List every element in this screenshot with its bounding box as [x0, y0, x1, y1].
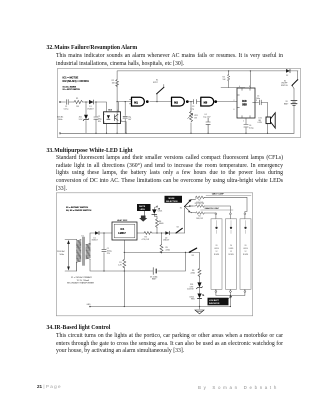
- opto-coupler IC1: [104, 112, 121, 124]
- resistor branch3: [196, 212, 205, 215]
- svg-text:6: 6: [234, 109, 235, 111]
- svg-text:56Ω, 1W: 56Ω, 1W: [196, 218, 203, 220]
- capacitor C2: [94, 117, 98, 119]
- svg-text:680Ω: 680Ω: [159, 223, 164, 225]
- paragraph 34: [56, 334, 283, 340]
- resistor R1: [74, 100, 83, 103]
- svg-text:230V AC: 230V AC: [57, 115, 64, 118]
- svg-text:X1: X1: [81, 235, 84, 237]
- NAND gate N3: [201, 97, 217, 106]
- LED panel A: [211, 219, 222, 289]
- LED1: [152, 209, 157, 214]
- svg-text:IC3: IC3: [242, 99, 247, 103]
- svg-text:1N4007: 1N4007: [163, 240, 169, 242]
- resistor R5: [160, 245, 163, 254]
- svg-text:2: 2: [234, 100, 235, 102]
- svg-text:230V AC: 230V AC: [57, 250, 65, 253]
- svg-text:16V: 16V: [98, 121, 102, 123]
- svg-text:50Hz: 50Hz: [60, 254, 65, 256]
- vdd rail: [117, 71, 298, 133]
- switch S3: [189, 248, 196, 252]
- svg-text:1N4007: 1N4007: [92, 240, 98, 242]
- svg-text:100µ: 100µ: [256, 98, 260, 100]
- svg-text:TABLE LAMP: TABLE LAMP: [212, 193, 225, 196]
- heading 33: [47, 149, 133, 155]
- svg-text:S2: S2: [177, 227, 179, 229]
- svg-text:BATT: BATT: [284, 102, 289, 105]
- diode D2 on rail: [286, 69, 290, 73]
- svg-text:1N4007: 1N4007: [87, 108, 93, 110]
- svg-text:S3: S3: [192, 255, 194, 257]
- svg-text:SEARCH LIGHT: SEARCH LIGHT: [205, 207, 221, 210]
- heading 34: [47, 326, 111, 332]
- capacitor C3: [194, 99, 197, 103]
- X1 transformer note: [67, 276, 95, 285]
- svg-text:HEAT SINK: HEAT SINK: [117, 219, 128, 222]
- svg-text:4: 4: [121, 120, 122, 122]
- IC3 pin1 ground: [245, 118, 247, 133]
- resistor R3 (vertical): [190, 112, 193, 122]
- svg-text:IC1: IC1: [109, 110, 113, 112]
- svg-text:555: 555: [242, 103, 247, 107]
- svg-text:1M: 1M: [194, 117, 197, 119]
- diode D1: [95, 231, 99, 235]
- svg-text:ROWS: ROWS: [243, 254, 249, 256]
- node C2: [95, 102, 97, 133]
- svg-text:ROWS: ROWS: [214, 254, 220, 256]
- ground symbol: [195, 310, 204, 314]
- svg-text:GND: GND: [87, 304, 92, 306]
- svg-text:12: 12: [245, 251, 247, 253]
- svg-text:TO 9V, 750mA: TO 9V, 750mA: [77, 279, 90, 282]
- svg-text:X1 = 230V AC PRIMARY: X1 = 230V AC PRIMARY: [71, 276, 93, 279]
- svg-text:1: 1: [243, 121, 244, 123]
- svg-text:4.7Ω, 1W: 4.7Ω, 1W: [142, 239, 150, 241]
- svg-text:0.1µ: 0.1µ: [191, 108, 195, 110]
- svg-text:0.01µ: 0.01µ: [249, 127, 254, 129]
- schematic 2: [56, 192, 254, 317]
- svg-text:IC2 (N1-N4) = CD4011: IC2 (N1-N4) = CD4011: [63, 79, 90, 83]
- diode D1: [89, 100, 94, 104]
- LED panel C: [240, 219, 251, 289]
- AC input arrows: [67, 240, 70, 271]
- frame border: [56, 193, 252, 316]
- zener ZD1: [197, 282, 201, 287]
- capacitor C1: [66, 100, 68, 105]
- svg-text:SECONDARY TRANSFORMER: SECONDARY TRANSFORMER: [67, 282, 95, 285]
- resistor branch2: [196, 205, 205, 208]
- svg-text:R1: R1: [76, 98, 78, 100]
- wires: [65, 197, 247, 309]
- N2 out, C3, N3: [188, 102, 200, 134]
- heading 32: [47, 46, 138, 52]
- footer page number: [37, 384, 62, 389]
- capacitor C1: [102, 249, 106, 251]
- regulator IC1: [112, 222, 137, 240]
- battery BATT 9V: [291, 101, 297, 106]
- svg-text:20: 20: [216, 245, 218, 247]
- svg-text:SELECTION: SELECTION: [166, 201, 178, 203]
- svg-text:1.2K: 1.2K: [118, 264, 122, 266]
- zener ZD1: [84, 115, 88, 120]
- svg-text:20: 20: [230, 245, 232, 247]
- svg-text:R3 12Ω, 1W: R3 12Ω, 1W: [195, 203, 205, 205]
- svg-text:ROWS: ROWS: [228, 254, 234, 256]
- opto pins: [107, 102, 127, 134]
- svg-text:LEDS: LEDS: [140, 209, 146, 211]
- resistor R2 (vertical): [116, 80, 119, 87]
- svg-text:LEDS: LEDS: [229, 248, 234, 250]
- svg-text:MODE: MODE: [169, 198, 176, 200]
- wires: AC input rails: [60, 71, 298, 133]
- svg-text:12: 12: [216, 251, 218, 253]
- svg-text:1: 1: [104, 114, 105, 116]
- svg-text:10µ: 10µ: [203, 117, 206, 119]
- IC3 top pins: [221, 71, 250, 88]
- NAND gate N2: [172, 97, 189, 106]
- transformer X1: [76, 237, 90, 271]
- svg-text:1M: 1M: [76, 106, 79, 108]
- battery 6V: [153, 268, 156, 275]
- switch S1: [157, 88, 164, 94]
- junction dots: [103, 232, 231, 307]
- paragraph 32: [56, 54, 283, 60]
- svg-text:10K: 10K: [223, 79, 227, 81]
- svg-text:220Ω: 220Ω: [191, 273, 196, 275]
- svg-text:LEDS: LEDS: [243, 248, 248, 250]
- svg-text:4: 4: [239, 86, 240, 88]
- switch S2: [292, 80, 298, 86]
- IC3 555 timer: [237, 88, 255, 118]
- diode D2: [165, 231, 169, 235]
- svg-text:LEDS: LEDS: [214, 248, 219, 250]
- capacitor C4: [206, 118, 210, 133]
- svg-text:N3: N3: [204, 100, 208, 104]
- svg-text:S2, S3 = ON/OFF SWITCH: S2, S3 = ON/OFF SWITCH: [66, 210, 92, 212]
- parts list labels: [63, 76, 90, 91]
- parts list labels: [66, 206, 92, 212]
- svg-text:5.1V: 5.1V: [79, 119, 83, 121]
- junction dots: [85, 70, 268, 134]
- LED panel terminals: [215, 213, 246, 292]
- svg-text:16V: 16V: [207, 117, 211, 119]
- svg-text:N1: N1: [134, 100, 138, 104]
- N3 out to IC3: [217, 101, 237, 103]
- svg-text:S1 = SPST SWITCH: S1 = SPST SWITCH: [63, 89, 81, 91]
- resistor R1: [123, 259, 126, 268]
- N1 out to N2: [150, 101, 171, 103]
- S1 branch: [156, 94, 158, 102]
- svg-text:25V: 25V: [107, 253, 111, 255]
- AC input terminals: [59, 101, 61, 103]
- schematic 1: [57, 68, 302, 138]
- svg-text:12: 12: [230, 251, 232, 253]
- node ZD1 top/bottom: [85, 102, 87, 133]
- svg-text:8: 8: [249, 86, 250, 88]
- low batt indicator label box: [208, 298, 229, 306]
- resistor R3: [144, 232, 152, 235]
- svg-text:LED1: LED1: [158, 211, 163, 213]
- LED panel B: [226, 219, 237, 289]
- resistor R2 branch1: [196, 196, 205, 199]
- capacitor C5: [259, 100, 261, 105]
- svg-text:400mW: 400mW: [187, 289, 193, 291]
- svg-text:5: 5: [117, 110, 118, 112]
- svg-text:10K: 10K: [112, 83, 116, 85]
- loudspeaker LS1: [266, 117, 271, 124]
- svg-text:220Ω: 220Ω: [166, 249, 171, 251]
- svg-text:2: 2: [104, 122, 105, 124]
- svg-text:S1 = ROTARY SWITCH: S1 = ROTARY SWITCH: [66, 206, 89, 209]
- svg-text:RED: RED: [191, 299, 195, 301]
- svg-text:0.47µ: 0.47µ: [64, 108, 69, 110]
- svg-text:3: 3: [256, 100, 257, 102]
- capacitor C7 at opto output: [123, 116, 127, 118]
- svg-text:LM317: LM317: [118, 232, 126, 235]
- heat sink label box: [137, 204, 151, 211]
- LED2: [197, 294, 201, 299]
- svg-text:16V: 16V: [128, 119, 132, 121]
- mode selection label box: [165, 196, 183, 203]
- N1 input wire: [117, 102, 131, 134]
- switch S2 on output line: [176, 228, 182, 233]
- paragraph 33: [56, 156, 283, 162]
- svg-text:50Hz: 50Hz: [58, 119, 62, 121]
- resistor R4: [156, 219, 159, 228]
- frame border: [57, 69, 300, 138]
- svg-text:S1: S1: [180, 207, 182, 209]
- footer author: [198, 385, 279, 390]
- svg-text:D2: D2: [286, 75, 288, 77]
- svg-text:SWITCH: SWITCH: [281, 85, 288, 87]
- svg-text:IC1 = MCT2E: IC1 = MCT2E: [63, 76, 79, 80]
- NAND gate N1: [132, 97, 149, 106]
- svg-text:INDICATOR: INDICATOR: [209, 302, 220, 305]
- resistor R6: [198, 268, 201, 276]
- IC3 pin3 to C5: [255, 102, 268, 133]
- svg-text:IC1: IC1: [121, 228, 125, 231]
- svg-text:WHITE: WHITE: [139, 206, 146, 208]
- rotary switch S1: [185, 200, 191, 207]
- capacitor C6: [244, 125, 248, 128]
- svg-text:SPST: SPST: [153, 82, 159, 84]
- GND terminal: [89, 306, 91, 308]
- svg-text:LOW BATT: LOW BATT: [209, 299, 220, 302]
- svg-text:20: 20: [245, 245, 247, 247]
- svg-text:0.5W: 0.5W: [258, 122, 262, 124]
- right column: battery: [293, 89, 295, 134]
- svg-text:N2: N2: [174, 100, 178, 104]
